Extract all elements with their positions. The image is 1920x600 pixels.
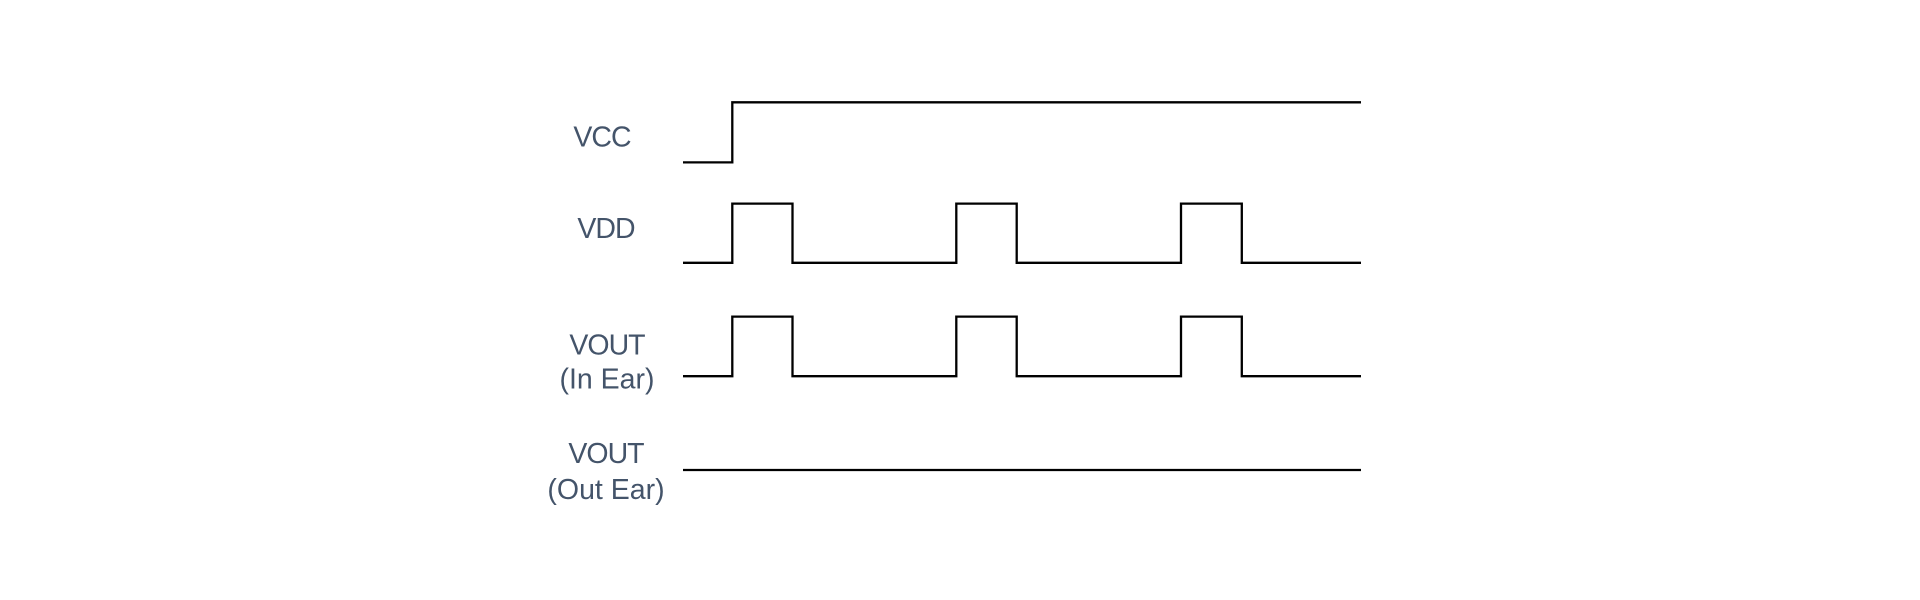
svg-text:(In Ear): (In Ear)	[559, 363, 654, 395]
signal label VDD	[577, 213, 635, 245]
waveform VOUT (In Ear): three pulses	[683, 317, 1361, 377]
signal label VCC	[573, 122, 631, 154]
signal label VOUT (Out Ear)	[547, 438, 664, 506]
waveform VDD: three pulses	[683, 204, 1361, 263]
svg-text:VCC: VCC	[573, 122, 631, 154]
waveform VOUT (Out Ear): flat low line	[683, 469, 1361, 471]
svg-text:VOUT: VOUT	[569, 330, 645, 362]
waveform VCC: low then rising edge to high	[683, 102, 1361, 162]
svg-text:VDD: VDD	[577, 213, 635, 245]
svg-text:VOUT: VOUT	[568, 438, 644, 470]
signal label VOUT (In Ear)	[559, 330, 654, 396]
svg-text:(Out Ear): (Out Ear)	[547, 474, 664, 506]
